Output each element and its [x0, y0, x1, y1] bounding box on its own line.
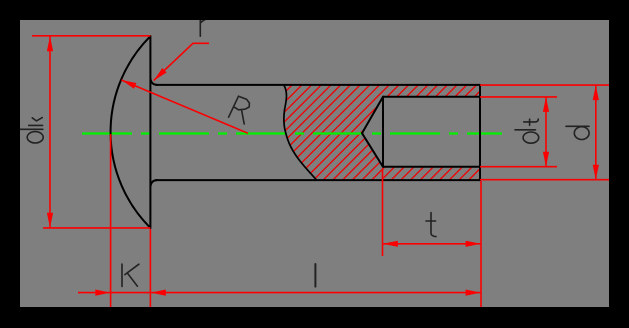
label K: [122, 264, 139, 287]
label l: [314, 264, 316, 287]
head spherical arc: [111, 36, 151, 228]
hole cone base: [382, 97, 384, 167]
arrow t right: [466, 241, 481, 247]
top neck fillet: [150, 79, 157, 85]
dk top extension line: [32, 35, 150, 37]
bottom neck fillet: [150, 180, 157, 186]
arrow l right: [466, 290, 481, 296]
arrow dk top: [47, 36, 53, 51]
t and l extension line right: [480, 181, 482, 307]
arrow t left: [383, 241, 398, 247]
section hatching: [185, 84, 574, 182]
arrow d top: [593, 85, 599, 100]
label r: [200, 12, 211, 36]
dt dimension line: [545, 97, 547, 167]
r leader line: [154, 43, 209, 80]
label d: [566, 125, 589, 127]
dt bottom extension line: [480, 166, 557, 168]
label R: [229, 96, 250, 124]
arrow d bottom: [593, 165, 599, 180]
arrow dk bottom: [47, 213, 53, 228]
dk bottom extension line: [43, 227, 150, 229]
arrow dt top: [543, 97, 549, 112]
arrow K outside: [95, 290, 110, 296]
hole cone point: [362, 97, 383, 167]
label t: [426, 213, 436, 237]
arrow dt bottom: [543, 152, 549, 167]
d dimension line: [595, 85, 597, 180]
shank end face: [479, 85, 481, 180]
l left extension line: [149, 229, 151, 307]
hole bottom line: [383, 166, 480, 168]
arrow r: [154, 68, 167, 81]
K left extension line: [110, 134, 112, 307]
dt top extension line: [480, 96, 557, 98]
d bottom extension line: [480, 179, 609, 181]
R radius line: [121, 80, 248, 133]
label dk: [19, 128, 43, 130]
K and l dimension line: [78, 292, 481, 294]
shank bottom line: [156, 179, 480, 181]
label dt: [515, 129, 536, 131]
shank top line: [156, 84, 480, 86]
centerline (axis): [82, 132, 502, 134]
section break curve: [284, 85, 317, 180]
t extension line left: [382, 169, 384, 257]
hole top line: [383, 96, 480, 98]
arrow R: [121, 80, 136, 89]
arrow l left: [151, 290, 166, 296]
head face line: [149, 36, 151, 228]
dk dimension line: [49, 36, 51, 227]
d top extension line: [480, 84, 609, 86]
t dimension line: [383, 243, 482, 245]
